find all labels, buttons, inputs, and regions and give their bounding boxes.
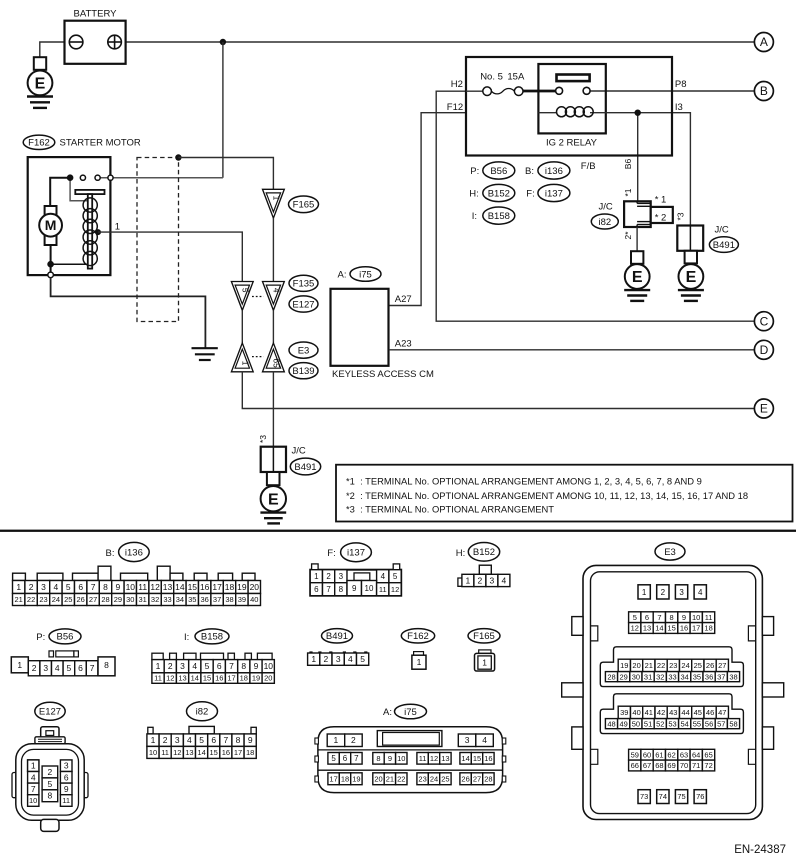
svg-text:2: 2 (324, 654, 329, 664)
svg-text:56: 56 (705, 719, 713, 728)
svg-text:E: E (686, 269, 697, 286)
svg-text:72: 72 (704, 761, 712, 770)
svg-text:9: 9 (248, 735, 253, 745)
svg-text:1: 1 (115, 221, 120, 232)
svg-text:*2 : TERMINAL No. OPTIONAL AR: *2 : TERMINAL No. OPTIONAL ARRANGEMENT A… (346, 490, 748, 501)
wire 4 to 65 (272, 310, 274, 343)
solenoid coil (83, 198, 97, 266)
wire F165 to F135 (272, 218, 274, 281)
svg-text:54: 54 (681, 719, 689, 728)
svg-text:38: 38 (729, 672, 737, 681)
svg-text:E3: E3 (664, 547, 676, 558)
label F12 (447, 102, 463, 113)
svg-text:1: 1 (417, 657, 422, 667)
svg-text:57: 57 (717, 719, 725, 728)
svg-text:B152: B152 (473, 547, 495, 558)
wire B6 to J/C i82 (637, 113, 639, 202)
pinout i75 connector (315, 727, 506, 793)
svg-text:13: 13 (178, 674, 186, 683)
svg-text:40: 40 (250, 595, 258, 604)
svg-text:14: 14 (175, 582, 185, 592)
svg-text:12: 12 (391, 585, 399, 594)
svg-text:B:: B: (525, 166, 534, 177)
svg-text:24: 24 (52, 595, 60, 604)
svg-text:F12: F12 (447, 102, 463, 113)
svg-text:8: 8 (236, 735, 241, 745)
svg-text:6: 6 (645, 613, 649, 622)
svg-text:F:: F: (526, 189, 534, 200)
svg-text:17: 17 (234, 748, 242, 757)
junction dashed box corner (175, 154, 181, 160)
svg-text:i136: i136 (545, 166, 563, 177)
label H2 (451, 79, 463, 90)
svg-text:1: 1 (17, 660, 22, 670)
starter contact circles (80, 175, 223, 180)
svg-text:9: 9 (116, 582, 121, 592)
svg-text:10: 10 (397, 754, 405, 763)
svg-text:3: 3 (679, 588, 684, 597)
svg-text:A:: A: (383, 707, 392, 718)
wire to node E (242, 372, 754, 409)
svg-text:27: 27 (89, 595, 97, 604)
wire H2 to node C (436, 91, 754, 321)
svg-text:3: 3 (490, 575, 495, 585)
svg-text:26: 26 (706, 661, 714, 670)
svg-text:3: 3 (64, 761, 69, 771)
pinout E3 pins 1-4 (638, 585, 706, 599)
svg-text:18: 18 (240, 674, 248, 683)
svg-text:20: 20 (250, 582, 260, 592)
svg-text:51: 51 (644, 719, 652, 728)
svg-text:11: 11 (419, 754, 427, 763)
svg-text:13: 13 (643, 624, 651, 633)
svg-text:62: 62 (667, 750, 675, 759)
svg-text:38: 38 (225, 595, 233, 604)
label *2 rotated (623, 231, 633, 240)
svg-text:75: 75 (677, 792, 685, 801)
svg-text:E: E (268, 491, 279, 508)
svg-text:26: 26 (77, 595, 85, 604)
svg-text:E127: E127 (39, 707, 61, 718)
svg-text:14: 14 (191, 674, 199, 683)
svg-text:19: 19 (237, 582, 247, 592)
J/C i82 (591, 194, 673, 229)
svg-text:15: 15 (210, 748, 218, 757)
svg-text:F/B: F/B (581, 161, 596, 172)
svg-text:39: 39 (238, 595, 246, 604)
svg-text:1: 1 (334, 735, 339, 745)
wire 65 down to J/C B491 (272, 372, 274, 447)
svg-text:58: 58 (729, 719, 737, 728)
svg-text:6: 6 (78, 582, 83, 592)
svg-text:27: 27 (473, 774, 481, 783)
svg-text:39: 39 (620, 708, 628, 717)
pinout B491 label (322, 629, 353, 643)
svg-text:J/C: J/C (292, 446, 306, 457)
svg-text:19: 19 (252, 674, 260, 683)
svg-text:33: 33 (163, 595, 171, 604)
svg-text:9: 9 (254, 661, 259, 671)
svg-text:10: 10 (29, 796, 37, 805)
pinout F162 connector (412, 652, 426, 670)
svg-text:9: 9 (682, 613, 686, 622)
svg-text:10: 10 (149, 748, 157, 757)
svg-text:4: 4 (192, 661, 197, 671)
svg-text:7: 7 (657, 613, 661, 622)
svg-text:11: 11 (379, 585, 387, 594)
svg-text:50: 50 (632, 719, 640, 728)
svg-text:7: 7 (326, 585, 331, 594)
svg-text:17: 17 (329, 774, 337, 783)
svg-text:A27: A27 (395, 294, 412, 305)
svg-text:9: 9 (352, 584, 357, 593)
svg-text:65: 65 (704, 750, 712, 759)
svg-text:48: 48 (607, 719, 615, 728)
pinout E3 pins 39-58 block (600, 694, 743, 734)
svg-text:15: 15 (667, 624, 675, 633)
svg-text:2: 2 (168, 661, 173, 671)
svg-text:67: 67 (643, 761, 651, 770)
dotted pair link lower (252, 356, 264, 358)
wire P8 to node B (590, 90, 754, 92)
svg-text:10: 10 (126, 582, 136, 592)
svg-text:60: 60 (643, 750, 651, 759)
svg-text:41: 41 (645, 708, 653, 717)
label A27 (395, 294, 412, 305)
svg-text:69: 69 (667, 761, 675, 770)
label A23 (395, 338, 412, 349)
node E (754, 399, 773, 418)
connector B139 pin 65 triangle (263, 343, 285, 372)
svg-text:IG 2 RELAY: IG 2 RELAY (546, 138, 598, 149)
wire 5 to 1 (241, 310, 243, 343)
fuse box F/B (466, 57, 672, 172)
connector F165 triangle pin 1 (263, 189, 285, 218)
svg-text:2: 2 (661, 588, 666, 597)
svg-text:1: 1 (31, 761, 36, 771)
svg-text:B6: B6 (623, 159, 633, 170)
svg-text:21: 21 (645, 661, 653, 670)
ground E i82 (624, 251, 650, 301)
svg-text:15: 15 (203, 674, 211, 683)
thick wire fuse to relay contact (523, 90, 556, 93)
svg-text:21: 21 (15, 595, 23, 604)
svg-text:8: 8 (376, 754, 380, 763)
svg-text:34: 34 (176, 595, 184, 604)
ground E lower B491 (260, 472, 286, 523)
svg-text:12: 12 (173, 748, 181, 757)
pinout E3 pins 5-18 (629, 612, 715, 634)
svg-text:9: 9 (388, 754, 392, 763)
svg-text:11: 11 (138, 582, 147, 592)
svg-text:11: 11 (62, 796, 70, 805)
pinout B: i136 label (106, 542, 150, 561)
svg-text:C: C (760, 314, 769, 328)
svg-text:6: 6 (64, 772, 69, 782)
svg-text:2: 2 (478, 575, 483, 585)
svg-text:F165: F165 (293, 200, 315, 211)
svg-text:B:: B: (106, 548, 115, 559)
svg-text:F:: F: (327, 548, 335, 559)
svg-text:28: 28 (484, 774, 492, 783)
svg-text:i75: i75 (359, 269, 372, 280)
terminal 1 junction on coil (95, 221, 120, 235)
relay coil (538, 107, 641, 117)
svg-text:5: 5 (66, 582, 71, 592)
svg-text:3: 3 (339, 572, 344, 581)
svg-text:59: 59 (631, 750, 639, 759)
svg-text:P8: P8 (675, 79, 687, 90)
svg-text:7: 7 (90, 663, 95, 673)
dashed optional box (137, 158, 179, 322)
svg-text:71: 71 (692, 761, 700, 770)
svg-text:1: 1 (240, 361, 250, 366)
svg-text:14: 14 (655, 624, 663, 633)
wire A23 to node D (389, 349, 755, 351)
svg-text:F165: F165 (473, 631, 495, 642)
wire battery negative lead (40, 42, 83, 58)
svg-text:2: 2 (163, 735, 168, 745)
svg-text:37: 37 (717, 672, 725, 681)
svg-text:I:: I: (472, 211, 477, 222)
svg-text:5: 5 (331, 754, 336, 763)
wire motor to contact (50, 178, 70, 206)
svg-text:EN-24387: EN-24387 (734, 844, 786, 856)
svg-text:31: 31 (139, 595, 147, 604)
pinout i137 connector (310, 564, 401, 596)
wire i82 to ground (636, 227, 638, 251)
svg-text:6: 6 (314, 585, 319, 594)
starter motor box F162 (28, 157, 111, 275)
svg-text:B158: B158 (488, 211, 510, 222)
svg-text:B139: B139 (292, 366, 314, 377)
note box terminal arrangement (336, 465, 793, 522)
svg-text:61: 61 (655, 750, 663, 759)
svg-text:I:: I: (184, 632, 189, 643)
junction motor bottom (47, 261, 54, 268)
svg-text:16: 16 (200, 582, 210, 592)
wire starter ground (51, 278, 206, 348)
connector E127 pin 4 triangle (263, 282, 285, 311)
svg-text:*3: *3 (258, 435, 268, 443)
connector E3 label (289, 342, 318, 358)
svg-text:22: 22 (657, 661, 665, 670)
wire motor bottom (51, 245, 89, 272)
separator line (0, 530, 796, 532)
svg-text:2: 2 (32, 663, 37, 673)
svg-text:16: 16 (680, 624, 688, 633)
svg-text:4: 4 (502, 575, 507, 585)
svg-text:8: 8 (670, 613, 674, 622)
svg-text:F135: F135 (293, 279, 315, 290)
connector F135 pin 5 triangle (231, 282, 253, 311)
svg-text:2: 2 (48, 767, 53, 777)
svg-text:19: 19 (352, 774, 360, 783)
pinout E127 connector (12, 727, 88, 832)
svg-text:16: 16 (484, 754, 492, 763)
svg-text:24: 24 (681, 661, 689, 670)
svg-text:11: 11 (161, 748, 169, 757)
label *3 (258, 435, 268, 443)
svg-text:i82: i82 (598, 217, 611, 228)
J/C B491 lower (261, 446, 321, 475)
svg-text:46: 46 (706, 708, 714, 717)
pinout F165 label (468, 629, 500, 643)
label I3 (675, 102, 683, 113)
svg-text:1: 1 (311, 654, 316, 664)
svg-text:12: 12 (631, 624, 639, 633)
svg-text:21: 21 (386, 774, 394, 783)
svg-text:4: 4 (271, 288, 281, 293)
svg-text:10: 10 (692, 613, 700, 622)
svg-text:E: E (35, 76, 46, 93)
svg-text:1: 1 (314, 572, 319, 581)
ground E B491 upper (678, 251, 704, 301)
svg-text:30: 30 (632, 672, 640, 681)
svg-text:47: 47 (718, 708, 726, 717)
svg-text:64: 64 (692, 750, 700, 759)
svg-text:8: 8 (48, 791, 53, 801)
svg-text:8: 8 (339, 585, 344, 594)
svg-text:BATTERY: BATTERY (74, 8, 118, 19)
svg-text:M: M (45, 217, 57, 233)
svg-text:5: 5 (67, 663, 72, 673)
svg-text:i137: i137 (545, 188, 563, 199)
svg-text:27: 27 (718, 661, 726, 670)
ground E battery (27, 57, 53, 108)
svg-text:5: 5 (360, 654, 365, 664)
svg-text:36: 36 (705, 672, 713, 681)
IG 2 relay box (538, 64, 605, 149)
svg-text:4: 4 (55, 663, 60, 673)
wire battery positive feed to node A (108, 41, 755, 43)
svg-text:32: 32 (656, 672, 664, 681)
svg-text:40: 40 (632, 708, 640, 717)
svg-text:E: E (632, 269, 643, 286)
legend F: i137 (526, 184, 570, 201)
svg-text:*1: *1 (623, 188, 633, 196)
pinout B56 connector (11, 651, 115, 676)
svg-text:4: 4 (381, 572, 386, 581)
label *1 rotated (623, 188, 633, 196)
label P8 (675, 79, 687, 90)
junction coil to B6 (635, 110, 641, 116)
svg-text:A23: A23 (395, 338, 412, 349)
svg-text:9: 9 (64, 784, 69, 794)
svg-text:10: 10 (264, 661, 274, 671)
drawing number EN-24387 (734, 844, 786, 856)
svg-text:42: 42 (657, 708, 665, 717)
node A (754, 33, 773, 52)
legend H: B152 (469, 184, 515, 201)
svg-text:15: 15 (473, 754, 481, 763)
svg-text:*3: *3 (676, 212, 686, 220)
svg-text:13: 13 (163, 582, 173, 592)
pinout B158 connector (152, 653, 274, 683)
svg-text:I3: I3 (675, 102, 683, 113)
svg-text:E: E (760, 402, 768, 416)
legend P: B56 (470, 162, 515, 179)
svg-text:34: 34 (681, 672, 689, 681)
pinout P: B56 label (36, 629, 81, 644)
svg-text:*1 : TERMINAL No. OPTIONAL AR: *1 : TERMINAL No. OPTIONAL ARRANGEMENT A… (346, 475, 702, 486)
pinout F165 connector (475, 650, 495, 671)
svg-text:5: 5 (199, 735, 204, 745)
pinout F162 label (401, 629, 434, 643)
svg-text:33: 33 (668, 672, 676, 681)
svg-text:B158: B158 (201, 632, 223, 643)
svg-text:30: 30 (126, 595, 134, 604)
svg-text:23: 23 (418, 774, 426, 783)
svg-text:16: 16 (215, 674, 223, 683)
svg-text:1: 1 (156, 661, 161, 671)
J/C B491 upper (677, 224, 738, 252)
svg-text:18: 18 (246, 748, 254, 757)
svg-text:A:: A: (338, 269, 347, 280)
svg-text:5: 5 (633, 613, 637, 622)
relay contact bar (557, 75, 590, 82)
svg-text:6: 6 (78, 663, 83, 673)
svg-text:32: 32 (151, 595, 159, 604)
svg-text:24: 24 (430, 774, 438, 783)
svg-text:4: 4 (482, 735, 487, 745)
junction starter contact (67, 174, 74, 181)
pinout E3 pins 59-72 (629, 749, 715, 771)
svg-text:i136: i136 (125, 547, 143, 558)
svg-text:28: 28 (101, 595, 109, 604)
pinout E3 connector shell (562, 565, 784, 819)
svg-text:29: 29 (620, 672, 628, 681)
svg-text:B56: B56 (57, 632, 74, 643)
svg-text:P:: P: (470, 166, 479, 177)
motor M (39, 206, 62, 245)
svg-text:8: 8 (103, 582, 108, 592)
svg-text:6: 6 (217, 661, 222, 671)
svg-text:15: 15 (188, 582, 198, 592)
node C (754, 312, 773, 331)
legend I: B158 (472, 207, 515, 224)
svg-text:25: 25 (64, 595, 72, 604)
svg-text:45: 45 (694, 708, 702, 717)
pinout B491 connector (308, 651, 369, 665)
svg-text:3: 3 (336, 654, 341, 664)
node D (754, 340, 773, 359)
svg-text:66: 66 (631, 761, 639, 770)
starter motor F162 label (23, 135, 141, 149)
svg-text:2: 2 (29, 582, 34, 592)
svg-text:1: 1 (482, 657, 487, 667)
svg-text:14: 14 (461, 754, 469, 763)
svg-text:3: 3 (41, 582, 46, 592)
svg-text:3: 3 (180, 661, 185, 671)
pinout i136 connector (13, 566, 261, 605)
svg-text:2*: 2* (623, 231, 633, 240)
svg-text:10: 10 (365, 584, 374, 593)
svg-text:17: 17 (227, 674, 235, 683)
connector F135 label (289, 275, 318, 291)
svg-text:74: 74 (659, 792, 667, 801)
svg-text:44: 44 (681, 708, 689, 717)
svg-text:55: 55 (693, 719, 701, 728)
svg-text:1: 1 (642, 588, 647, 597)
junction battery feed (220, 39, 226, 45)
svg-text:63: 63 (680, 750, 688, 759)
wire battery feed down to starter contact (222, 42, 224, 178)
svg-text:3: 3 (175, 735, 180, 745)
connector F165 label (289, 196, 319, 213)
svg-text:12: 12 (430, 754, 438, 763)
connector E127 label (289, 296, 318, 312)
